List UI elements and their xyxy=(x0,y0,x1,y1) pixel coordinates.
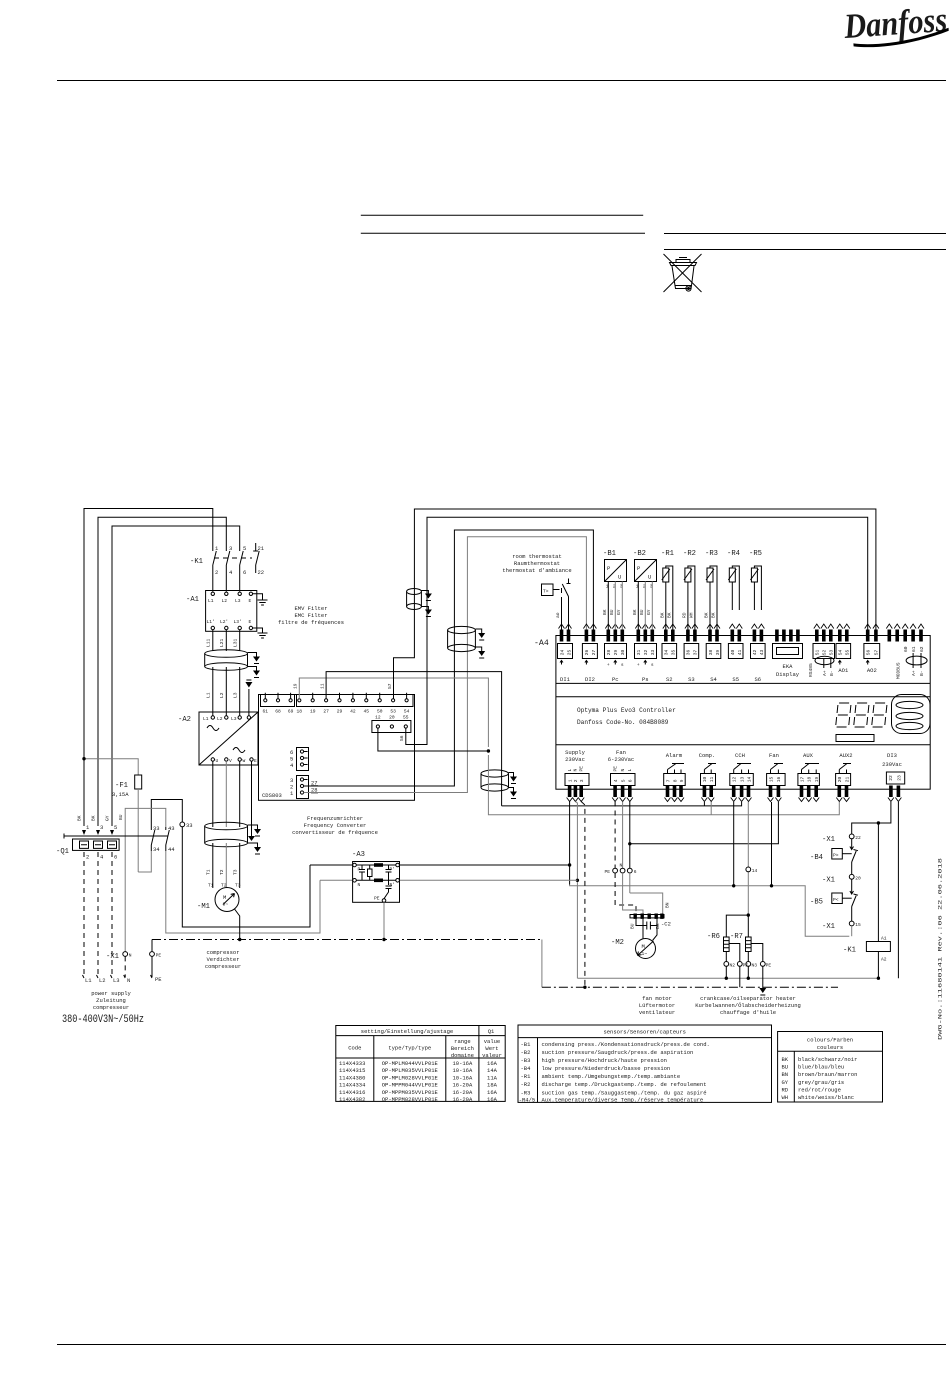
wire DI3-22 to safety chain xyxy=(852,802,891,834)
svg-text:-A1: -A1 xyxy=(186,596,199,604)
svg-text:compresseur: compresseur xyxy=(93,1004,129,1011)
svg-text:-C2: -C2 xyxy=(661,921,671,928)
svg-text:N: N xyxy=(127,977,130,984)
svg-text:51: 51 xyxy=(815,649,821,655)
svg-text:230Vac: 230Vac xyxy=(565,756,585,763)
svg-text:56: 56 xyxy=(399,735,405,741)
svg-text:L1: L1 xyxy=(203,716,209,722)
wire CDS t55 to AO2-56 (label 56) xyxy=(406,517,868,744)
svg-text:BN: BN xyxy=(782,1071,789,1078)
svg-text:62: 62 xyxy=(919,646,925,652)
title rule right 1 xyxy=(664,233,946,235)
svg-text:380-400V3N~/50Hz: 380-400V3N~/50Hz xyxy=(62,1014,144,1026)
svg-text:61: 61 xyxy=(911,646,917,652)
svg-text:61: 61 xyxy=(263,709,269,715)
svg-text:-A2: -A2 xyxy=(178,716,191,724)
RS485 port 51 52 53 xyxy=(808,624,835,677)
supply terminal block 1 2 3 xyxy=(565,749,589,802)
svg-text:16A: 16A xyxy=(487,1060,498,1067)
EKA display connector xyxy=(773,630,803,679)
terminal X1-20 xyxy=(822,862,861,885)
svg-text:BK: BK xyxy=(602,609,608,615)
EMC filter A1 xyxy=(186,591,257,632)
EMC filter A3 xyxy=(352,851,400,902)
svg-text:-B2: -B2 xyxy=(633,550,646,558)
svg-text:L21: L21 xyxy=(219,638,225,647)
svg-text:S2: S2 xyxy=(666,676,673,683)
svg-text:114X4380: 114X4380 xyxy=(339,1074,365,1081)
svg-text:U: U xyxy=(618,574,621,581)
svg-text:-M2: -M2 xyxy=(611,939,624,947)
svg-text:N: N xyxy=(573,769,579,772)
svg-text:setting/Einstellung/ajustage: setting/Einstellung/ajustage xyxy=(361,1028,453,1035)
svg-text:DI3: DI3 xyxy=(887,752,897,759)
wire choke to A2-L3, label L3 xyxy=(239,667,241,716)
svg-text:OP-MPLM028VVLP01E: OP-MPLM028VVLP01E xyxy=(382,1074,439,1081)
svg-text:PE: PE xyxy=(605,869,611,875)
wire Fan-15 down to L line xyxy=(771,802,773,886)
svg-text:42: 42 xyxy=(350,709,356,715)
temperature sensor R3 xyxy=(704,550,718,630)
svg-text:T2: T2 xyxy=(219,869,225,875)
svg-text:-M1: -M1 xyxy=(197,903,210,911)
svg-text:PE: PE xyxy=(155,976,162,983)
svg-text:white/weiss/blanc: white/weiss/blanc xyxy=(798,1094,854,1101)
svg-text:22: 22 xyxy=(855,835,861,841)
terminal Ps 31 32 33 xyxy=(635,624,657,683)
wire terminal 33 down to A3-P chain xyxy=(182,827,310,927)
svg-text:50: 50 xyxy=(377,709,383,715)
svg-text:3: 3 xyxy=(579,779,585,782)
analog output AO2 56 57 xyxy=(864,624,880,674)
svg-text:8: 8 xyxy=(672,779,678,782)
ground arrow at choke bottom tap xyxy=(248,667,257,671)
svg-text:EKA: EKA xyxy=(783,663,794,670)
svg-text:BK: BK xyxy=(660,612,666,618)
svg-text:-R4: -R4 xyxy=(727,550,740,558)
svg-text:L2: L2 xyxy=(99,977,106,984)
wire A3-P line to A3 xyxy=(310,864,353,866)
svg-text:1: 1 xyxy=(567,779,573,782)
crankcase heater relay output CCH 12 13 14 xyxy=(730,752,754,802)
svg-text:PE: PE xyxy=(374,896,380,902)
svg-text:2: 2 xyxy=(573,779,579,782)
pressure transmitter B2 xyxy=(633,550,657,590)
svg-text:-Q1: -Q1 xyxy=(56,848,69,856)
svg-text:5: 5 xyxy=(114,824,117,831)
WEEE crossed-out wheelie bin icon xyxy=(664,254,702,292)
svg-text:34: 34 xyxy=(664,649,670,655)
contactor K1 main poles xyxy=(190,545,252,576)
wire heater branch to R6 xyxy=(747,913,750,916)
svg-text:+: + xyxy=(607,663,610,668)
svg-text:convertisseur de fréquence: convertisseur de fréquence xyxy=(292,829,378,836)
wire K1-4 to A1-L2 xyxy=(225,571,227,592)
svg-text:7: 7 xyxy=(665,779,671,782)
wire A2-V to motor choke xyxy=(225,761,227,827)
svg-text:26: 26 xyxy=(584,649,590,655)
dashed supply line L1 below Q1 xyxy=(83,852,85,977)
svg-text:A+: A+ xyxy=(822,670,828,676)
svg-text:U: U xyxy=(648,574,651,581)
svg-text:L3: L3 xyxy=(235,598,241,604)
controller A4 box xyxy=(534,636,930,790)
svg-text:29: 29 xyxy=(613,649,619,655)
terminal DI2 26 27 xyxy=(582,624,597,683)
svg-text:6-230Vac: 6-230Vac xyxy=(608,756,634,763)
svg-text:43: 43 xyxy=(759,649,765,655)
wire CDS t12 joining Comp-11 riser xyxy=(378,728,489,751)
svg-text:114X4315: 114X4315 xyxy=(339,1067,365,1074)
CDS803 terminal strip 18 19 27 29 42 45 50 53 54 xyxy=(297,693,414,715)
wire fan speed line Fan16 xyxy=(630,802,779,844)
svg-text:-R7: -R7 xyxy=(730,933,743,941)
svg-text:T3: T3 xyxy=(235,883,241,889)
svg-text:N3: N3 xyxy=(752,963,758,969)
svg-text:CCH: CCH xyxy=(735,752,745,759)
svg-text:55: 55 xyxy=(845,649,851,655)
wire A2-U to motor choke xyxy=(212,761,214,827)
wire F1 to Q1 aux contact 34 xyxy=(138,851,151,872)
svg-text:ambient temp./Umgebungstemp./t: ambient temp./Umgebungstemp./temp.ambian… xyxy=(542,1073,681,1080)
svg-text:33: 33 xyxy=(650,649,656,655)
svg-text:27: 27 xyxy=(591,649,597,655)
svg-text:11: 11 xyxy=(319,683,325,689)
terminal X1-15 xyxy=(822,907,861,937)
svg-text:Danfoss: Danfoss xyxy=(842,0,948,46)
svg-text:RD: RD xyxy=(682,612,688,618)
svg-text:-K1: -K1 xyxy=(843,947,856,955)
svg-text:33: 33 xyxy=(186,822,193,829)
svg-text:RD: RD xyxy=(782,1086,789,1093)
svg-text:114X4316: 114X4316 xyxy=(339,1089,365,1096)
svg-text:L3: L3 xyxy=(231,716,237,722)
terminal X1-N xyxy=(106,952,132,977)
svg-text:-R5: -R5 xyxy=(749,550,762,558)
svg-text:54: 54 xyxy=(404,709,410,715)
svg-text:AUX2: AUX2 xyxy=(839,752,852,759)
svg-text:22: 22 xyxy=(258,569,265,576)
svg-text:M: M xyxy=(223,894,226,901)
svg-text:-X1: -X1 xyxy=(822,923,835,931)
svg-text:36: 36 xyxy=(686,649,692,655)
svg-text:114X4333: 114X4333 xyxy=(339,1060,365,1067)
ground arrow below PE terminals xyxy=(762,966,764,988)
temperature sensor R4 spare xyxy=(727,550,740,610)
svg-text:Fan: Fan xyxy=(616,749,626,756)
svg-text:57: 57 xyxy=(387,683,393,689)
wires B2 to Ps terminals xyxy=(637,582,639,630)
wire thermostat to DI1-25 xyxy=(568,597,570,630)
wire CDS t27 to Comp-10 chain (label 11) xyxy=(326,672,502,806)
wire L3 phase from Q1-5 up and over to K1-5 xyxy=(112,526,240,826)
svg-text:Alarm: Alarm xyxy=(666,752,683,759)
svg-text:BK: BK xyxy=(782,1056,789,1063)
svg-text:Code: Code xyxy=(348,1045,361,1052)
wire R6 to N2 terminal xyxy=(725,952,727,962)
svg-text:L11: L11 xyxy=(206,638,212,647)
frequency converter control section CDS803 box xyxy=(259,695,415,801)
svg-text:BU: BU xyxy=(782,1064,789,1071)
svg-text:L31: L31 xyxy=(233,638,239,647)
control buttons xyxy=(892,695,931,734)
svg-text:24: 24 xyxy=(559,649,565,655)
svg-text:52: 52 xyxy=(822,649,828,655)
svg-text:T>: T> xyxy=(543,589,549,595)
svg-text:AO1: AO1 xyxy=(838,667,849,674)
wire Comp-11 riser lower part to Comp relay xyxy=(488,755,839,815)
svg-text:BU: BU xyxy=(118,814,124,820)
wire A3-N' to Supply-N xyxy=(400,879,578,881)
svg-text:compresseur: compresseur xyxy=(205,963,241,970)
terminal circle N2 xyxy=(724,962,729,967)
room thermostat T> contact xyxy=(542,579,571,599)
svg-text:BK: BK xyxy=(711,612,717,618)
svg-text:-R2: -R2 xyxy=(521,1081,531,1088)
svg-text:BK: BK xyxy=(91,815,97,821)
aux relay output AUX2 20 21 xyxy=(836,752,853,802)
svg-text:BK: BK xyxy=(704,612,710,618)
svg-text:-K1: -K1 xyxy=(190,558,203,566)
svg-text:ventilateur: ventilateur xyxy=(639,1009,675,1016)
svg-text:AUX: AUX xyxy=(803,752,814,759)
svg-text:16: 16 xyxy=(776,776,782,782)
wire CDS t53 up through choke to AO2-57 (label 57) xyxy=(394,509,876,699)
svg-text:DI1: DI1 xyxy=(560,676,571,683)
svg-text:18: 18 xyxy=(807,776,813,782)
temperature sensor R5 spare xyxy=(749,550,762,610)
svg-text:2: 2 xyxy=(215,569,218,576)
svg-text:-R2: -R2 xyxy=(683,550,696,558)
fuse F1 xyxy=(112,775,142,872)
alarm relay output 7 8 9 xyxy=(664,752,686,802)
svg-text:EMV Filter: EMV Filter xyxy=(294,605,327,612)
MODBUS port xyxy=(886,624,927,679)
wire K1-2 to A1-L1 xyxy=(212,571,214,592)
wire A3-PE to shield line xyxy=(383,902,385,939)
svg-text:Q1: Q1 xyxy=(488,1028,495,1035)
svg-text:N2: N2 xyxy=(730,963,736,969)
wire A1-L2' to line choke, label L21 xyxy=(225,630,227,651)
wire Q1 aux 44 bottom to A3-N chain xyxy=(166,851,320,933)
wire DI3-23 down to N point xyxy=(897,802,899,978)
svg-text:31: 31 xyxy=(636,649,642,655)
svg-text:-X1: -X1 xyxy=(106,953,119,961)
svg-text:-B4: -B4 xyxy=(810,854,823,862)
terminal circle N3 xyxy=(746,962,751,967)
svg-text:L2: L2 xyxy=(217,716,223,722)
wire Comp-10 chain horizontal to CCH-13 xyxy=(502,802,742,806)
wires choke to motor M1 with T labels xyxy=(212,843,214,888)
svg-text:30: 30 xyxy=(620,649,626,655)
svg-text:32: 32 xyxy=(643,649,649,655)
svg-text:S4: S4 xyxy=(710,676,717,683)
svg-text:V: V xyxy=(229,758,232,764)
motor protection breaker Q1 xyxy=(56,815,168,860)
svg-text:6: 6 xyxy=(114,854,117,861)
wire Supply-L down with taps xyxy=(569,802,571,885)
svg-text:114X4334: 114X4334 xyxy=(339,1082,366,1089)
svg-text:B-: B- xyxy=(919,670,925,676)
svg-text:1~: 1~ xyxy=(642,951,648,957)
svg-text:L2': L2' xyxy=(220,619,228,625)
terminal S5 40 41 xyxy=(728,624,743,683)
svg-text:-X1: -X1 xyxy=(822,877,835,885)
wire K1-6 to A1-L3 xyxy=(239,571,241,592)
ground arrow at motor choke bottom tap xyxy=(248,843,258,847)
svg-text:39: 39 xyxy=(715,649,721,655)
svg-text:A2: A2 xyxy=(881,957,887,963)
svg-text:range: range xyxy=(454,1038,471,1045)
svg-text:MODBUS: MODBUS xyxy=(896,662,902,679)
wire Comp-11 stub xyxy=(710,802,712,815)
CDS803 6-pin connector pins 3 2 1 with wires 27 28 xyxy=(290,776,318,799)
svg-text:value: value xyxy=(484,1038,501,1045)
wire A2-E with ground arrow xyxy=(251,761,253,836)
svg-text:RS485: RS485 xyxy=(808,663,814,677)
svg-text:P<: P< xyxy=(833,897,839,903)
svg-text:45: 45 xyxy=(364,709,370,715)
svg-text:10: 10 xyxy=(702,776,708,782)
supply line end labels xyxy=(83,975,153,984)
svg-text:18: 18 xyxy=(297,709,303,715)
svg-text:suction gas temp./Sauggastemp.: suction gas temp./Sauggastemp./temp. du … xyxy=(542,1089,707,1096)
Danfoss logo xyxy=(842,0,950,49)
wire A2-PE pin stub up with ground arrow xyxy=(248,689,250,716)
svg-text:L3': L3' xyxy=(234,619,242,625)
svg-text:WH: WH xyxy=(782,1094,789,1101)
svg-text:Frequency Converter: Frequency Converter xyxy=(304,822,367,829)
svg-text:OP-MPLM044VVLP01E: OP-MPLM044VVLP01E xyxy=(382,1060,439,1067)
svg-text:15: 15 xyxy=(855,922,861,928)
svg-text:19: 19 xyxy=(293,683,299,689)
svg-text:12: 12 xyxy=(375,715,381,721)
svg-text:crankcase/oilseparator heater: crankcase/oilseparator heater xyxy=(700,995,796,1002)
dashed supply line L2 below Q1 xyxy=(97,852,99,977)
svg-text:Verdichter: Verdichter xyxy=(206,956,239,963)
run capacitor C2 xyxy=(636,919,671,930)
svg-text:L3: L3 xyxy=(233,692,239,698)
svg-text:21: 21 xyxy=(258,545,265,552)
7-segment display xyxy=(836,703,888,727)
fan motor M2 xyxy=(611,919,657,959)
terminal S4 38 39 xyxy=(706,624,721,683)
svg-text:DI2: DI2 xyxy=(585,676,595,683)
svg-text:5: 5 xyxy=(243,545,246,552)
svg-text:17: 17 xyxy=(799,776,805,782)
svg-text:Aux.temperature/diverse Temp./: Aux.temperature/diverse Temp./réserve te… xyxy=(542,1096,704,1103)
wire choke to A2-L1, label L1 xyxy=(212,667,214,716)
terminal S2 34 35 xyxy=(662,624,677,683)
svg-text:L: L xyxy=(567,769,573,772)
ferrite choke on AO2-57 wire xyxy=(407,589,422,610)
svg-text:-F1: -F1 xyxy=(115,782,128,790)
svg-text:-B4: -B4 xyxy=(521,1065,532,1072)
svg-text:38: 38 xyxy=(708,649,714,655)
Q1 auxiliary contacts 33-34 43-44 xyxy=(151,825,175,853)
svg-text:PE: PE xyxy=(612,766,618,772)
top rule xyxy=(57,80,946,82)
svg-text:41: 41 xyxy=(737,649,743,655)
svg-text:-R1: -R1 xyxy=(661,550,674,558)
ferrite sleeve choke on motor lines xyxy=(205,822,248,847)
wire Fan-PE dashed to fan connector xyxy=(614,802,616,869)
svg-text:T1: T1 xyxy=(208,883,214,889)
svg-text:PE: PE xyxy=(156,953,162,959)
svg-text:Pc: Pc xyxy=(612,676,619,683)
svg-text:10-16A: 10-16A xyxy=(452,1067,473,1074)
svg-text:L: L xyxy=(627,769,633,772)
display bar xyxy=(836,735,874,742)
svg-text:A+: A+ xyxy=(911,670,917,676)
svg-text:12: 12 xyxy=(732,776,738,782)
svg-text:OP-MPPM044VVLP01E: OP-MPPM044VVLP01E xyxy=(382,1082,439,1089)
svg-text:BK: BK xyxy=(632,609,638,615)
fan connector circles PE N 6 xyxy=(605,863,637,876)
svg-text:U: U xyxy=(216,758,219,764)
svg-text:+: + xyxy=(637,663,640,668)
svg-text:brown/braun/marron: brown/braun/marron xyxy=(798,1071,857,1078)
svg-text:room thermostat: room thermostat xyxy=(512,553,562,560)
earth symbol at A1 bottom E pin xyxy=(253,628,268,638)
svg-text:L2: L2 xyxy=(222,598,228,604)
svg-text:6: 6 xyxy=(628,779,634,782)
svg-text:blue/blau/bleu: blue/blau/bleu xyxy=(798,1064,844,1071)
ground arrow at thermostat choke top tap xyxy=(475,629,481,633)
svg-text:N': N' xyxy=(390,882,396,888)
svg-text:Supply: Supply xyxy=(565,749,586,756)
svg-text:black/schwarz/noir: black/schwarz/noir xyxy=(798,1056,857,1063)
svg-text:P>: P> xyxy=(833,853,839,859)
svg-text:chauffage d'huile: chauffage d'huile xyxy=(720,1009,776,1016)
svg-text:AO2: AO2 xyxy=(867,667,877,674)
title rule left 1 xyxy=(361,214,643,216)
svg-text:S6: S6 xyxy=(754,676,761,683)
N bus line xyxy=(577,977,878,979)
svg-text:11A: 11A xyxy=(487,1074,498,1081)
svg-text:69: 69 xyxy=(288,709,294,715)
svg-text:19: 19 xyxy=(310,709,316,715)
svg-text:BU: BU xyxy=(630,923,636,929)
svg-text:S3: S3 xyxy=(688,676,695,683)
wire A1-L1' to line choke, label L11 xyxy=(212,630,214,651)
svg-text:19: 19 xyxy=(814,776,820,782)
svg-text:5: 5 xyxy=(620,779,626,782)
CDS803 inner connector 12 20 55 xyxy=(372,715,411,733)
svg-text:BK: BK xyxy=(77,815,83,821)
crankcase heater R6 xyxy=(707,933,729,952)
svg-text:ao: ao xyxy=(556,612,561,618)
svg-text:-B5: -B5 xyxy=(810,899,823,907)
ground arrow at choke top tap xyxy=(248,653,257,657)
svg-text:red/rot/rouge: red/rot/rouge xyxy=(798,1086,841,1093)
svg-text:13: 13 xyxy=(739,776,745,782)
wire choke to A2-L2, label L2 xyxy=(225,667,227,716)
svg-text:68: 68 xyxy=(275,709,281,715)
svg-text:BU: BU xyxy=(639,609,645,615)
svg-text:56: 56 xyxy=(866,649,872,655)
svg-text:Optyma Plus Evo3 Controller: Optyma Plus Evo3 Controller xyxy=(577,707,676,714)
svg-text:44: 44 xyxy=(168,846,175,853)
svg-text:-R1: -R1 xyxy=(521,1073,532,1080)
sensors table xyxy=(518,1025,772,1103)
svg-text:Danfoss Code-No. 084B8089: Danfoss Code-No. 084B8089 xyxy=(577,719,669,726)
svg-text:20: 20 xyxy=(389,715,395,721)
terminal circle PE R6 xyxy=(737,962,742,967)
svg-text:25: 25 xyxy=(566,649,572,655)
wire CDS pin2 to DI2-27 riser xyxy=(304,530,594,786)
contactor coil K1 xyxy=(843,936,890,979)
